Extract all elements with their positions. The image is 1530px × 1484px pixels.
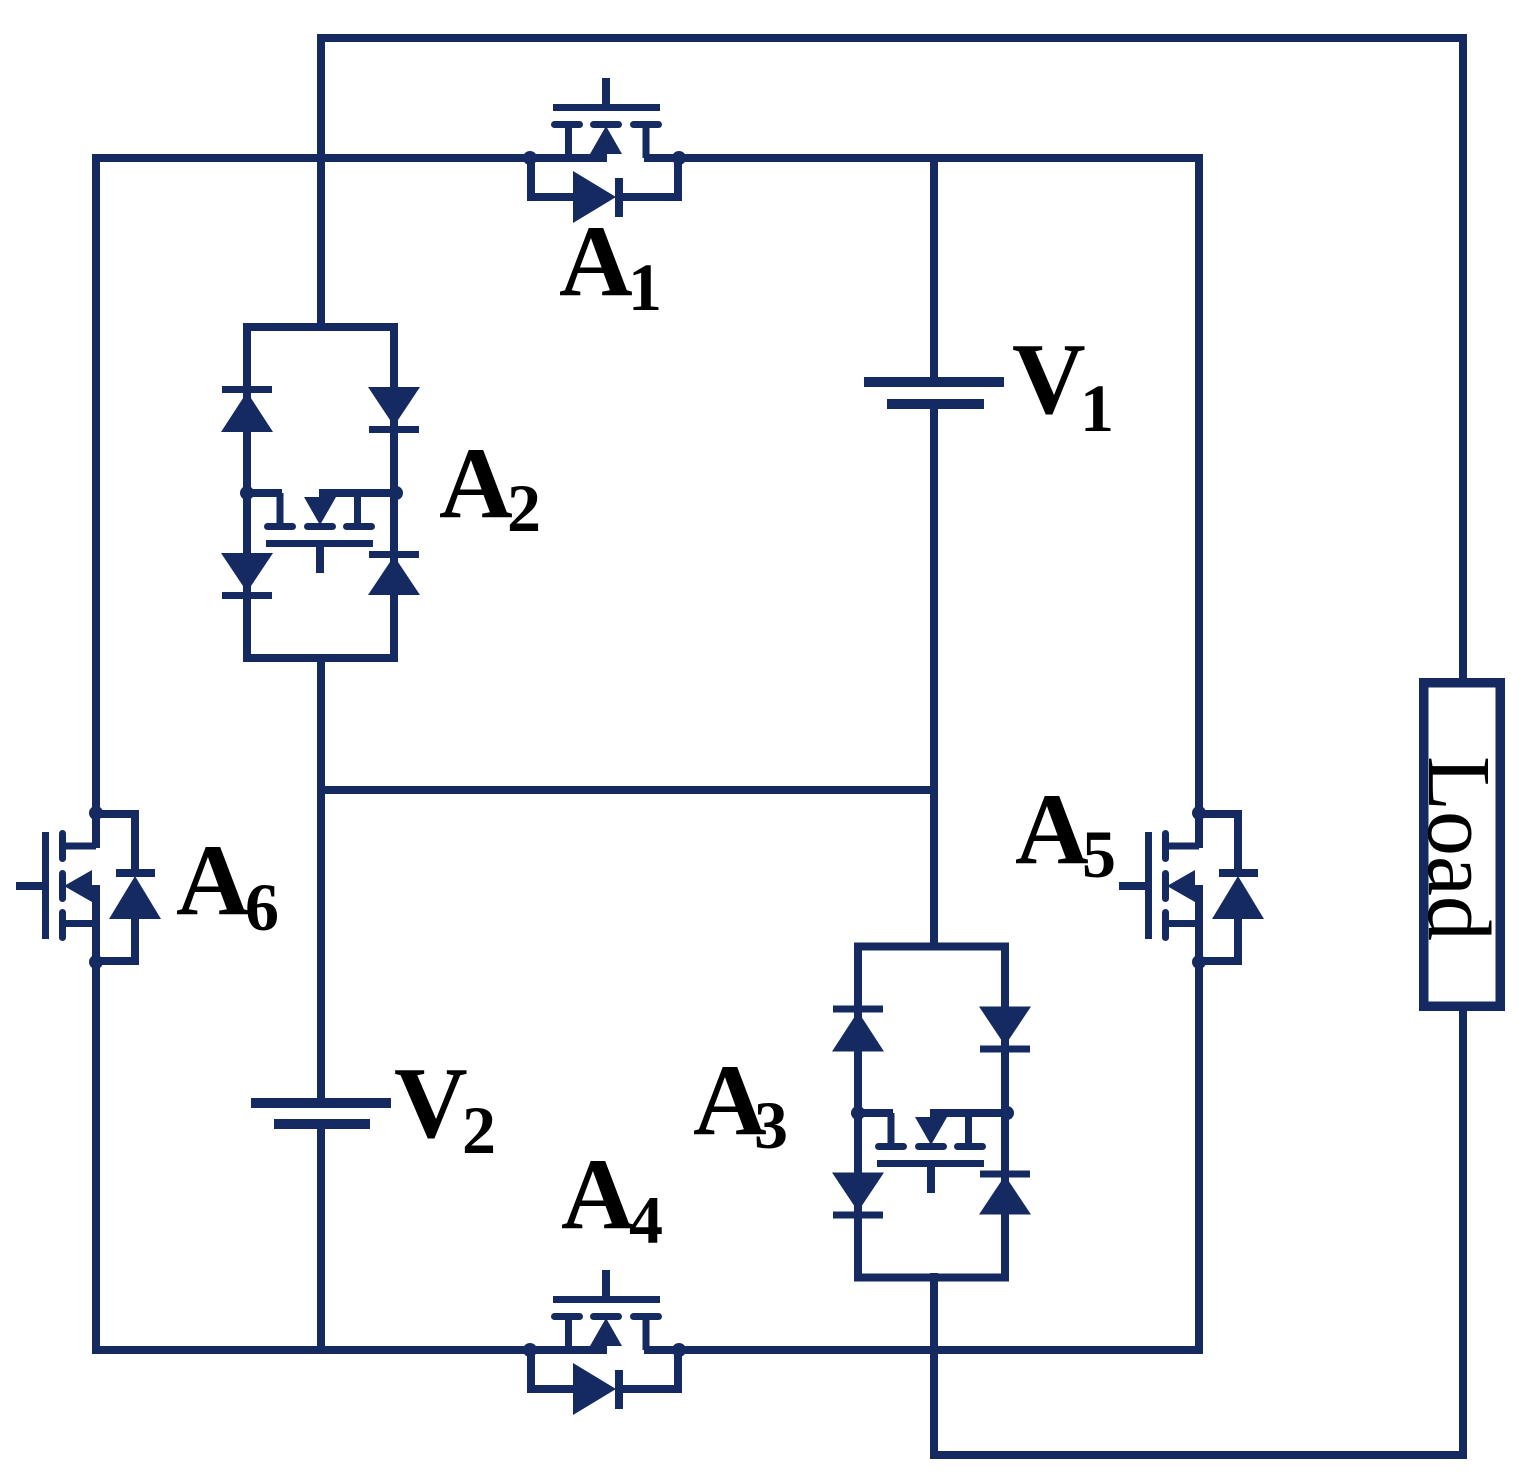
diode D-A6 (antiparallel of A6) (96, 814, 161, 961)
wire: V1 bottom to A3 top (930, 409, 938, 950)
transistor A6 (16, 806, 103, 969)
battery V2 plate long (251, 1098, 391, 1108)
battery V1 plate short (887, 399, 984, 409)
wire: second rail right of A1 to A5 column (679, 158, 1199, 813)
battery V2 plate short (274, 1119, 370, 1129)
diode bridge of A2 (221, 327, 420, 658)
svg-text:A: A (439, 427, 513, 540)
wire: middle rail A2 column to V1 column (321, 786, 934, 794)
svg-text:4: 4 (629, 1182, 663, 1258)
wire: A2 bottom feed down to V2 (317, 654, 325, 1098)
svg-text:2: 2 (462, 1092, 496, 1168)
svg-text:2: 2 (507, 470, 541, 546)
svg-text:3: 3 (754, 1087, 788, 1163)
wire: A4 to A5 bottom column (679, 962, 1199, 1350)
wire: A3 bottom down, bottom rail to Load bottom (934, 1011, 1463, 1455)
svg-text:Load: Load (1409, 756, 1508, 941)
svg-text:V: V (1012, 323, 1086, 436)
transistor A2 (bridge center) (240, 486, 403, 573)
transistor A1 (523, 78, 686, 165)
svg-text:A: A (1015, 773, 1089, 886)
svg-text:A: A (559, 205, 633, 318)
diode D-A1 (antiparallel of A1) (531, 158, 678, 223)
svg-text:A: A (561, 1138, 635, 1251)
svg-text:5: 5 (1082, 816, 1116, 892)
diode D-A5 (antiparallel of A5) (1199, 814, 1264, 961)
svg-text:1: 1 (628, 249, 662, 325)
wire: V1 stem from second rail (930, 154, 938, 377)
wire: A6 bottom to bottom rail to A4 (96, 962, 532, 1350)
svg-text:1: 1 (1080, 370, 1114, 446)
transistor A4 (523, 1270, 686, 1357)
diode D-A4 (antiparallel of A4) (531, 1350, 678, 1415)
svg-text:6: 6 (245, 869, 279, 945)
diode bridge of A3 (832, 947, 1031, 1278)
svg-text:V: V (394, 1047, 468, 1160)
svg-text:A: A (176, 824, 250, 937)
transistor A5 (1119, 806, 1206, 969)
transistor A3 (bridge center) (851, 1106, 1014, 1193)
wire: top rail from A2 feed to Load top (321, 38, 1463, 682)
wire: V2 bottom to bottom rail (317, 1129, 325, 1354)
load resistor (1424, 683, 1501, 1007)
battery V1 plate long (864, 377, 1004, 387)
wire: second rail left + left column down to A6 (96, 158, 532, 813)
